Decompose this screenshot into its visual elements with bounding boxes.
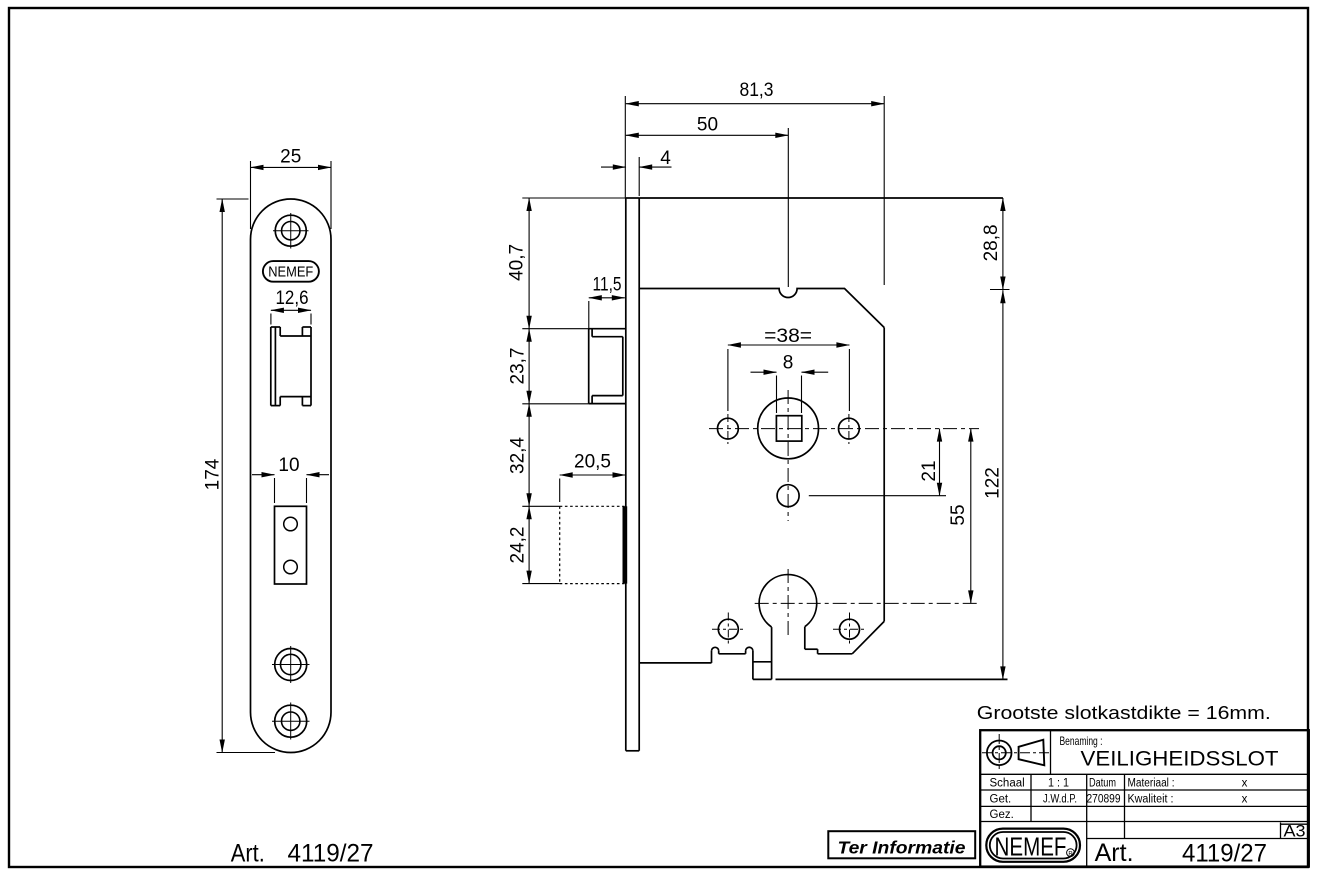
svg-text:24,2: 24,2: [507, 527, 528, 564]
svg-text:12,6: 12,6: [276, 288, 309, 309]
svg-text:NEMEF: NEMEF: [268, 265, 313, 281]
svg-text:Art.: Art.: [1095, 839, 1134, 867]
svg-text:50: 50: [697, 115, 718, 136]
svg-text:x: x: [1242, 794, 1248, 806]
svg-text:J.W.d.P.: J.W.d.P.: [1043, 794, 1077, 806]
svg-text:A3: A3: [1284, 823, 1306, 841]
svg-text:Art.: Art.: [231, 840, 265, 868]
svg-text:Materiaal :: Materiaal :: [1128, 778, 1175, 790]
svg-text:Ter Informatie: Ter Informatie: [838, 837, 966, 857]
svg-text:x: x: [1242, 778, 1248, 790]
svg-text:28,8: 28,8: [981, 224, 1002, 261]
svg-text:=38=: =38=: [764, 326, 812, 347]
svg-text:270899: 270899: [1087, 794, 1121, 806]
svg-text:Get.: Get.: [990, 794, 1012, 806]
svg-text:122: 122: [982, 467, 1003, 499]
svg-text:10: 10: [278, 455, 299, 476]
svg-text:NEMEF: NEMEF: [995, 832, 1067, 862]
svg-text:VEILIGHEIDSSLOT: VEILIGHEIDSSLOT: [1081, 747, 1279, 771]
svg-text:55: 55: [948, 504, 969, 525]
svg-text:32,4: 32,4: [507, 437, 528, 474]
svg-text:Schaal: Schaal: [990, 778, 1025, 790]
svg-text:23,7: 23,7: [507, 348, 528, 385]
svg-text:40,7: 40,7: [506, 244, 527, 281]
svg-text:R: R: [1068, 852, 1073, 858]
svg-text:174: 174: [202, 458, 223, 490]
svg-text:4119/27: 4119/27: [1182, 840, 1267, 868]
svg-text:4: 4: [660, 148, 671, 169]
svg-text:Datum: Datum: [1089, 778, 1116, 790]
svg-text:25: 25: [280, 147, 301, 168]
svg-text:1 : 1: 1 : 1: [1048, 778, 1069, 790]
svg-text:Kwaliteit :: Kwaliteit :: [1128, 794, 1174, 806]
svg-text:81,3: 81,3: [740, 80, 774, 101]
svg-text:Gez.: Gez.: [990, 809, 1014, 821]
svg-text:21: 21: [919, 460, 940, 481]
svg-text:Grootste slotkastdikte = 16mm.: Grootste slotkastdikte = 16mm.: [977, 702, 1271, 723]
svg-text:11,5: 11,5: [593, 275, 622, 296]
svg-text:20,5: 20,5: [574, 451, 611, 472]
svg-text:4119/27: 4119/27: [288, 840, 374, 868]
svg-text:8: 8: [783, 353, 794, 374]
